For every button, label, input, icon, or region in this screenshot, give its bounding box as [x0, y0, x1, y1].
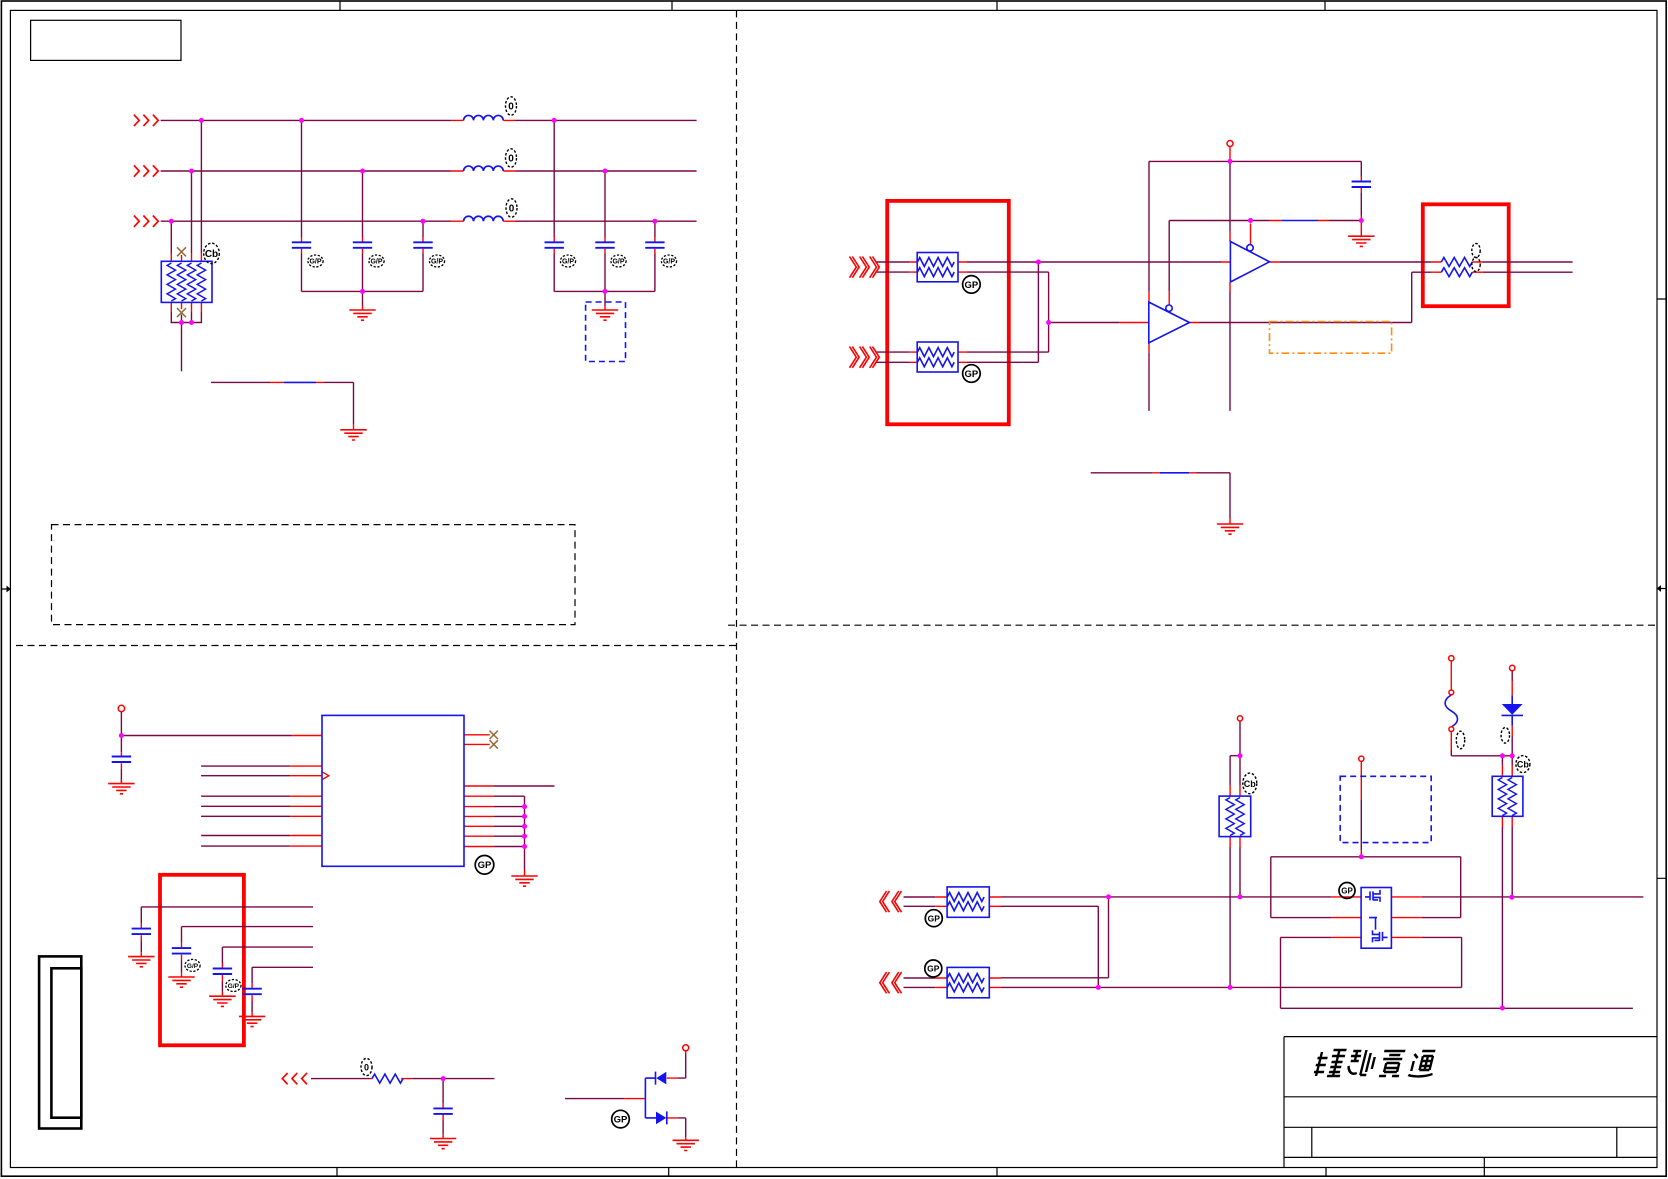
svg-text:0: 0 [508, 102, 514, 113]
svg-text:GP: GP [478, 860, 492, 871]
svg-text:Cb: Cb [1244, 779, 1256, 789]
svg-text:G/P: G/P [562, 259, 574, 266]
svg-text:GP: GP [1341, 887, 1353, 896]
svg-text:G/P: G/P [370, 259, 382, 266]
svg-text:Cb: Cb [205, 249, 218, 260]
svg-text:G/P: G/P [612, 259, 624, 266]
svg-text:GP: GP [927, 964, 940, 974]
svg-text:GP: GP [614, 1115, 628, 1126]
svg-text:G/P: G/P [187, 963, 199, 970]
svg-text:G/P: G/P [309, 259, 321, 266]
svg-text:Cb: Cb [1517, 760, 1529, 770]
svg-text:G/P: G/P [228, 983, 240, 990]
svg-text:GP: GP [965, 280, 979, 291]
svg-text:GP: GP [965, 369, 979, 380]
svg-text:G/P: G/P [663, 259, 675, 266]
svg-text:0: 0 [508, 154, 514, 165]
svg-text:0: 0 [364, 1063, 369, 1073]
svg-text:G/P: G/P [431, 259, 443, 266]
svg-text:0: 0 [509, 204, 515, 215]
svg-text:GP: GP [928, 913, 941, 923]
